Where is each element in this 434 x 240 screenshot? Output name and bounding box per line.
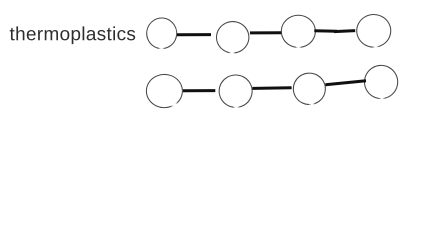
bond line L1 (T1-T2): [177, 33, 211, 36]
monomer circle B3 (bottom row, 3rd): [293, 73, 325, 104]
faded pen tip at B3 gap: [313, 103, 315, 106]
bond line LB2 (B2-B3): [252, 86, 291, 90]
monomer circle B2 (bottom row, 2nd): [219, 75, 252, 107]
monomer circle T3 (top row, 3rd): [281, 15, 315, 47]
monomer circle T1 (top row, 1st): [147, 18, 177, 48]
faded pen tip at T4 gap: [377, 46, 379, 48]
label: thermoplastics: [10, 26, 135, 44]
faded pen tip at B2 gap: [238, 106, 240, 108]
bond line L3 (T3-T4), stroke a: [314, 29, 337, 33]
bond line L2 (T2-T3): [250, 31, 281, 34]
bond line LB3 (B3-B4): [325, 81, 366, 85]
bond line L3 (T3-T4), stroke b: [334, 31, 355, 32]
faded pen tip at B1 gap: [176, 103, 177, 104]
monomer circle T4 (top row, 4th): [357, 15, 391, 48]
faded pen tip at B4 gap: [383, 97, 385, 99]
faded pen tip at T3 gap: [299, 46, 301, 48]
monomer circle B4 (bottom row, 4th): [364, 65, 397, 98]
monomer circle T2 (top row, 2nd): [217, 22, 249, 53]
faded pen tip at T2 gap: [233, 52, 235, 54]
monomer circle B1 (bottom row, 1st): [146, 74, 182, 107]
faded pen tip at T1 gap: [163, 47, 165, 49]
bond line LB1 (B1-B2): [183, 89, 215, 92]
